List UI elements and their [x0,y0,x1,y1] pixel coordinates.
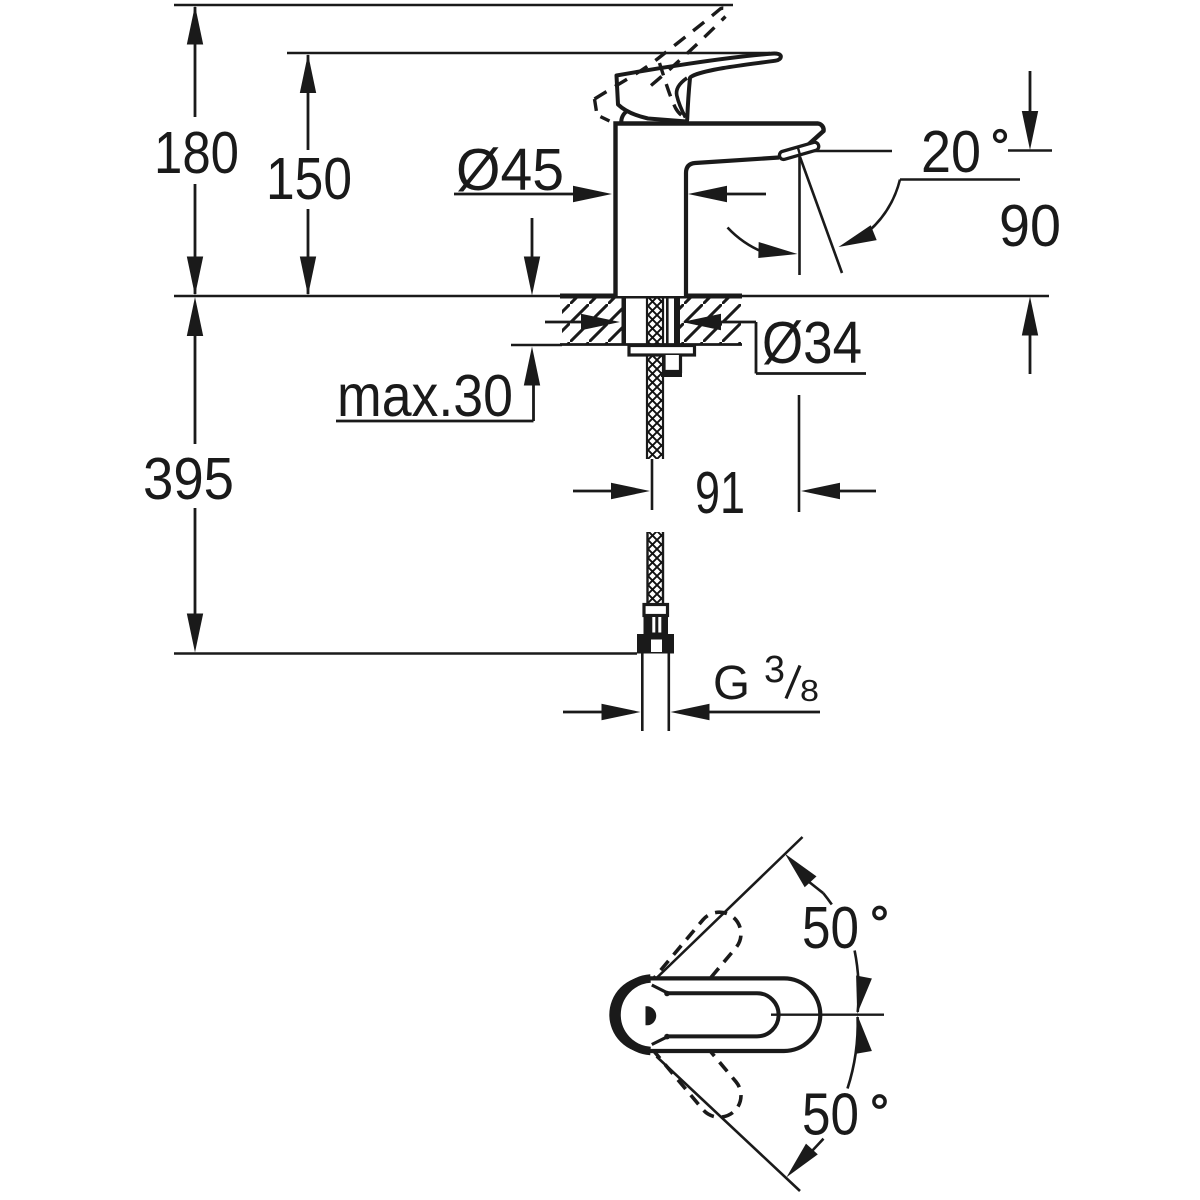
upper 50 deg arc [823,893,832,904]
centerline [771,1014,884,1016]
threaded stud upper (braided) [646,298,664,459]
upper 50 deg line [655,837,803,980]
dashed handle body left edge [595,99,610,121]
deck hole right wall [674,298,680,344]
arrow 180 down [187,257,203,296]
upper 50 deg arrow at line [785,854,817,887]
flare line top [652,985,668,993]
lower 50 deg line [657,1057,801,1192]
arrow 180 up [187,6,203,45]
max.30 top arrow [531,218,534,260]
arrow D45 right [573,186,612,202]
dimension 90 [1029,71,1032,115]
20 deg leader line and right arc [900,178,1020,181]
bowtie arrow lower [856,1016,872,1054]
svg-text:8: 8 [800,673,819,708]
svg-text:91: 91 [695,460,745,526]
faucet body and spout outline [616,124,824,297]
20 deg reference vertical line [798,155,801,275]
20 deg right arc arrow [839,225,877,247]
svg-text:395: 395 [143,446,234,512]
dimension 91 [651,459,654,510]
junction dot top [664,991,670,997]
svg-text:90: 90 [999,193,1061,259]
deck hole inner line [666,298,669,344]
D34 leader step [755,322,758,374]
handle mark (D shape) [646,1006,657,1025]
arrow 150 up [300,54,316,93]
hose collar [644,605,668,616]
lever handle (solid) [617,53,781,121]
bowtie arrow upper [856,976,872,1014]
handle dome arc [621,109,644,124]
svg-text:180: 180 [154,120,239,186]
thick handle cap arc [617,979,651,1051]
deck hole left wall [622,298,627,344]
dimension 395 [187,297,203,336]
hose nut upper [644,616,669,635]
svg-text:20: 20 [921,119,981,185]
extension line bottom (395 level) [174,652,637,655]
dashed raised lever top edge [595,8,729,99]
D34 horizontal arrows [545,321,590,324]
deck top thick segment [560,294,742,299]
20 deg left arc [728,228,765,253]
flare line bottom [652,1036,668,1044]
20 deg left arc arrow [758,242,797,258]
dimension 180 line [194,7,197,117]
dashed raised handle front edge [660,63,688,119]
svg-text:50: 50 [802,1082,859,1148]
G 3/8 dimension arrows [563,711,608,714]
svg-text:max.30: max.30 [337,363,513,429]
svg-text:3: 3 [764,649,785,691]
extension line top (180 level) [174,4,733,7]
dashed handle position upper (+50) [621,903,750,1045]
arrow 150 down [300,257,316,296]
hose nut lower [637,634,674,654]
arrow D45 left (points left at body right edge) [688,186,727,202]
deck hatching left [562,299,622,344]
mounting nut step [664,355,681,372]
svg-text:50: 50 [802,895,859,961]
dashed handle position lower (-50) [621,984,750,1126]
svg-text:Ø34: Ø34 [762,310,862,376]
spout tip horizontal line [800,150,892,153]
dashed raised lever bottom edge [651,17,726,86]
lower 50 deg arc [848,1017,858,1089]
deck hatching right [680,299,741,344]
20 deg slanted line [800,157,842,273]
svg-text:150: 150 [266,146,352,212]
flexible hose braided section [647,532,665,605]
washer under deck [629,346,695,356]
dimension 150 line [307,55,310,150]
deck bottom line [560,343,742,346]
deck top line [174,295,1049,298]
lever inner neck curve [677,78,687,118]
connection tube [641,654,644,732]
lower 50 deg arrow at line [787,1144,818,1178]
junction dot bottom [664,1034,670,1040]
max.30 bottom arrow and leader [511,344,562,347]
svg-text:G: G [713,657,750,710]
aerator [779,141,820,160]
inner spout outline (top view) [668,993,779,1036]
outer body outline (top view) [611,978,820,1051]
extension line 150 level [287,52,770,55]
